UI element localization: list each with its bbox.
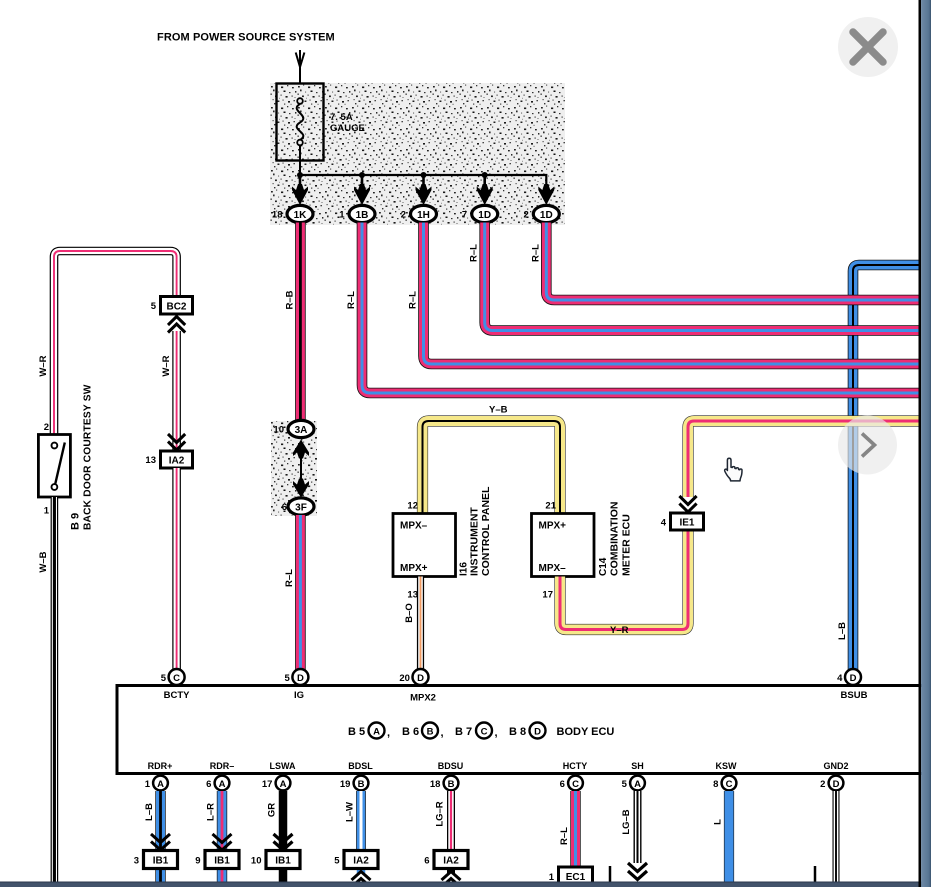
pin BDSU 18 B [430, 761, 463, 790]
pin SH 5 A [622, 761, 645, 790]
arrow into connector 1K [292, 175, 308, 205]
svg-text:5: 5 [161, 673, 167, 684]
svg-text:3F: 3F [295, 502, 307, 513]
connector 3F pin 6 [282, 498, 314, 515]
svg-text:10: 10 [273, 425, 284, 436]
wire W-B from switch pin1 down [38, 497, 54, 882]
svg-text:13: 13 [407, 590, 418, 601]
wire GR below LSWA [267, 791, 284, 882]
svg-text:6: 6 [424, 856, 429, 867]
svg-text:4: 4 [661, 518, 667, 529]
svg-text:R–L: R–L [469, 244, 480, 262]
svg-text:C: C [572, 779, 579, 790]
svg-text:SH: SH [631, 761, 644, 771]
connector IA2 pin 13 [145, 451, 192, 468]
svg-text:D: D [417, 673, 424, 684]
svg-text:L–R: L–R [206, 803, 217, 821]
svg-text:IE1: IE1 [679, 518, 694, 529]
svg-text:R–L: R–L [530, 244, 541, 262]
svg-text:B 8: B 8 [509, 726, 526, 738]
splice chevron RDR- [213, 834, 232, 850]
wire R-B from 1K to 3A [285, 223, 301, 422]
svg-text:Y–B: Y–B [489, 405, 508, 416]
wire R-L from 3F to IG [284, 515, 300, 670]
connector IB1 pin 9 [195, 851, 239, 869]
svg-text:HCTY: HCTY [563, 761, 588, 771]
svg-text:13: 13 [145, 455, 156, 466]
svg-text:10: 10 [251, 856, 262, 867]
svg-text:20: 20 [399, 673, 410, 684]
close button [838, 17, 898, 77]
wire LG-R below BDSU [435, 791, 452, 873]
partial box edge left of SH [609, 866, 612, 887]
svg-text:W–B: W–B [38, 551, 49, 572]
svg-text:17: 17 [262, 779, 273, 790]
svg-text:1D: 1D [540, 210, 553, 221]
svg-text:B 6: B 6 [402, 726, 419, 738]
svg-text:MPX+: MPX+ [539, 521, 567, 532]
svg-text:Y–R: Y–R [610, 625, 629, 636]
svg-text:1: 1 [549, 872, 555, 883]
wire W-R from IA2 down to BCTY [172, 468, 181, 670]
splice chevron RDR+ [151, 834, 170, 850]
svg-text:C: C [481, 726, 488, 737]
svg-text:A: A [634, 779, 641, 790]
connector 1H pin 2 [401, 205, 437, 222]
svg-text:MPX–: MPX– [539, 563, 567, 574]
wire Y-B between I16 pin12 and C14 pin21 [423, 405, 561, 515]
svg-text:2: 2 [401, 210, 406, 221]
svg-text:KSW: KSW [716, 761, 738, 771]
partial box edge right of KSW [814, 866, 817, 887]
svg-text:9: 9 [195, 856, 200, 867]
svg-text:1: 1 [339, 210, 345, 221]
svg-text:B 7: B 7 [455, 726, 472, 738]
svg-text:LG–B: LG–B [621, 809, 632, 834]
svg-text:3: 3 [134, 856, 139, 867]
svg-text:1H: 1H [417, 210, 430, 221]
wire LG-B below SH [621, 791, 638, 863]
arrow into connector 1H [416, 175, 432, 205]
svg-text:18: 18 [272, 210, 283, 221]
svg-text:MPX2: MPX2 [410, 693, 436, 704]
svg-text:D: D [534, 726, 541, 737]
svg-text:12: 12 [407, 501, 418, 512]
svg-text:BCTY: BCTY [164, 690, 191, 701]
svg-text:17: 17 [542, 590, 553, 601]
splice chevron below IA2 pin6 pointing up [442, 872, 461, 887]
BODY ECU box [117, 686, 931, 774]
junction node at 1B [359, 172, 365, 178]
pin 20 D MPX2 [399, 669, 436, 704]
connector IB1 pin 3 [134, 851, 178, 869]
svg-text:2: 2 [820, 779, 825, 790]
connector 1D pin 2 [524, 205, 560, 222]
svg-text:EC1: EC1 [566, 872, 586, 883]
splice chevron above IE1 pointing down [679, 496, 696, 512]
svg-text:FROM POWER SOURCE SYSTEM: FROM POWER SOURCE SYSTEM [157, 32, 335, 44]
svg-text:R–L: R–L [284, 569, 295, 587]
pin HCTY 6 C [560, 761, 588, 790]
pin LSWA 17 A [262, 761, 296, 790]
svg-text:B: B [427, 726, 434, 737]
splice chevron LSWA [274, 834, 293, 850]
connector BC2 pin 5 [151, 297, 193, 315]
svg-text:BDSL: BDSL [348, 761, 373, 771]
pin RDR+ 1 A [145, 761, 173, 790]
splice chevron above IA2 pointing down [168, 434, 185, 450]
pin 5 D IG [285, 669, 309, 701]
right page-edge bar [919, 0, 931, 887]
svg-text:3A: 3A [295, 425, 308, 436]
splice chevron SH pointing down [628, 863, 647, 880]
svg-text:C14: C14 [598, 557, 609, 576]
svg-text:5: 5 [151, 301, 157, 312]
svg-text:4: 4 [837, 673, 843, 684]
wire L below KSW [713, 791, 730, 882]
svg-text:B 9: B 9 [70, 513, 82, 530]
svg-text:B–O: B–O [404, 603, 415, 623]
wire R-L below HCTY [559, 791, 576, 867]
svg-text:INSTRUMENT: INSTRUMENT [469, 507, 481, 576]
svg-text:6: 6 [282, 502, 287, 513]
pin BDSL 19 B [340, 761, 373, 790]
wire W-R from switch pin2 over top to BC2 [38, 251, 177, 435]
arrow into connector 1B [354, 175, 370, 205]
svg-text:B: B [358, 779, 365, 790]
svg-text:MPX–: MPX– [400, 521, 428, 532]
svg-text:A: A [219, 779, 226, 790]
connector 1D pin 7 [462, 205, 498, 222]
svg-text:W–R: W–R [38, 355, 49, 376]
svg-text:1: 1 [145, 779, 151, 790]
arrow into connector 1D pin2 [538, 184, 554, 205]
svg-text:6: 6 [206, 779, 211, 790]
svg-text:C: C [173, 673, 180, 684]
connector IA2 pin 5 [334, 851, 378, 869]
junction node at 1D [482, 172, 488, 178]
svg-text:BDSU: BDSU [438, 761, 464, 771]
svg-text:RDR–: RDR– [210, 761, 235, 771]
svg-text:IA2: IA2 [443, 856, 459, 867]
svg-text:LSWA: LSWA [270, 761, 296, 771]
svg-text:,: , [441, 727, 444, 739]
svg-text:R–L: R–L [346, 291, 357, 309]
svg-text:BSUB: BSUB [841, 690, 868, 701]
connector 3A pin 10 [273, 420, 314, 437]
splice chevron below IA2 pin5 pointing up [352, 872, 371, 887]
wire L-R below RDR- [206, 791, 223, 882]
svg-text:CONTROL PANEL: CONTROL PANEL [480, 486, 492, 576]
svg-text:D: D [297, 673, 304, 684]
switch B9 BACK DOOR COURTESY SW [38, 384, 93, 530]
svg-text:R–B: R–B [285, 290, 296, 309]
svg-text:L–B: L–B [837, 622, 848, 640]
pin GND2 2 D [820, 761, 848, 790]
wire fuse to bus [299, 145, 301, 176]
bus line from fuse [300, 175, 546, 192]
svg-text:5: 5 [285, 673, 291, 684]
svg-text:5: 5 [622, 779, 628, 790]
svg-text:2: 2 [44, 422, 49, 433]
wire L-B from right edge down to BSUB [837, 265, 919, 670]
svg-text:IB1: IB1 [153, 856, 169, 867]
wire L-W below BDSL [345, 791, 362, 873]
svg-text:GAUGE: GAUGE [330, 123, 365, 134]
svg-text:GR: GR [267, 803, 278, 817]
svg-text:,: , [387, 727, 390, 739]
svg-text:21: 21 [545, 501, 556, 512]
svg-text:L: L [713, 819, 724, 825]
wire W-B below GND2 [833, 791, 840, 882]
connector 1K pin 18 [272, 205, 313, 222]
wire R-L from 1D pin7 to right edge [469, 223, 919, 331]
bottom page-edge bar [0, 882, 931, 887]
svg-text:1D: 1D [478, 210, 491, 221]
svg-text:B: B [448, 779, 455, 790]
svg-text:IA2: IA2 [353, 856, 369, 867]
svg-text:D: D [850, 673, 857, 684]
svg-text:IB1: IB1 [214, 856, 230, 867]
wire L-B below RDR+ [144, 791, 161, 882]
arrow into connector 1D pin7 [477, 175, 493, 205]
svg-text:B 5: B 5 [348, 726, 365, 738]
svg-text:,: , [495, 727, 498, 739]
next page button [838, 416, 897, 475]
label FROM POWER SOURCE SYSTEM [157, 32, 335, 44]
pin 4 D BSUB [837, 669, 867, 701]
svg-text:1: 1 [44, 506, 50, 517]
svg-text:A: A [280, 779, 287, 790]
wire R-L from 1B to right edge [346, 223, 919, 394]
ECU C14 COMBINATION METER ECU [532, 501, 633, 601]
svg-text:18: 18 [430, 779, 441, 790]
connector IA2 pin 6 [424, 851, 468, 869]
hand cursor [725, 458, 742, 481]
svg-text:A: A [373, 726, 380, 737]
hatch shading top band [270, 83, 565, 225]
svg-text:IG: IG [294, 690, 304, 701]
wire B-O from I16 pin13 to MPX2 [404, 577, 421, 671]
connector join arrows 3A to 3F [293, 440, 309, 498]
svg-text:8: 8 [713, 779, 718, 790]
svg-text:METER ECU: METER ECU [621, 514, 633, 576]
svg-text:5: 5 [334, 856, 340, 867]
pin RDR- 6 A [206, 761, 234, 790]
svg-text:IB1: IB1 [275, 856, 291, 867]
connector EC1 pin 1 [549, 867, 593, 884]
pin 5 C BCTY [161, 669, 190, 701]
svg-text:COMBINATION: COMBINATION [609, 502, 621, 576]
svg-text:L–W: L–W [345, 802, 356, 822]
svg-text:RDR+: RDR+ [148, 761, 173, 771]
svg-text:C: C [726, 779, 733, 790]
svg-text:W–R: W–R [161, 355, 172, 376]
svg-text:GND2: GND2 [823, 761, 848, 771]
svg-text:A: A [157, 779, 164, 790]
svg-text:2: 2 [524, 210, 529, 221]
svg-text:7: 7 [462, 210, 467, 221]
wire R-L from 1H to right edge [408, 223, 920, 365]
wire W-R from BC2 to IA2 [161, 331, 177, 452]
svg-text:BC2: BC2 [166, 301, 186, 312]
connector 1B pin 1 [339, 205, 375, 222]
svg-text:L–B: L–B [144, 803, 155, 821]
pin KSW 8 C [713, 761, 737, 790]
junction node at 1H [421, 172, 427, 178]
wire R-L from 1D pin2 to right edge [530, 223, 919, 301]
svg-text:D: D [833, 779, 840, 790]
ECU I16 INSTRUMENT CONTROL PANEL [393, 486, 492, 601]
connector IE1 pin 4 [661, 513, 704, 530]
svg-text:6: 6 [560, 779, 565, 790]
svg-text:BACK DOOR COURTESY SW: BACK DOOR COURTESY SW [83, 384, 94, 530]
svg-text:IA2: IA2 [169, 456, 185, 467]
splice chevron below BC2 pointing up [168, 317, 185, 333]
svg-text:1B: 1B [356, 210, 369, 221]
wire Y-R from C14 pin17 to IE1 [560, 529, 688, 636]
svg-text:19: 19 [340, 779, 351, 790]
svg-text:R–L: R–L [408, 291, 419, 309]
svg-text:BODY ECU: BODY ECU [557, 726, 615, 738]
junction node at 1K [297, 172, 303, 178]
svg-text:R–L: R–L [559, 827, 570, 845]
wire Y-R from IE1 up to right edge [688, 421, 919, 497]
fuse F 7.5A GAUGE [277, 84, 365, 161]
svg-text:1K: 1K [294, 210, 308, 221]
connector IB1 pin 10 [251, 851, 300, 869]
svg-text:LG–R: LG–R [435, 801, 446, 826]
wire from power source into fuse [296, 50, 305, 84]
svg-text:MPX+: MPX+ [400, 563, 428, 574]
hatch shading 3A-3F strip [271, 421, 317, 516]
svg-text:7. 5A: 7. 5A [330, 112, 353, 123]
